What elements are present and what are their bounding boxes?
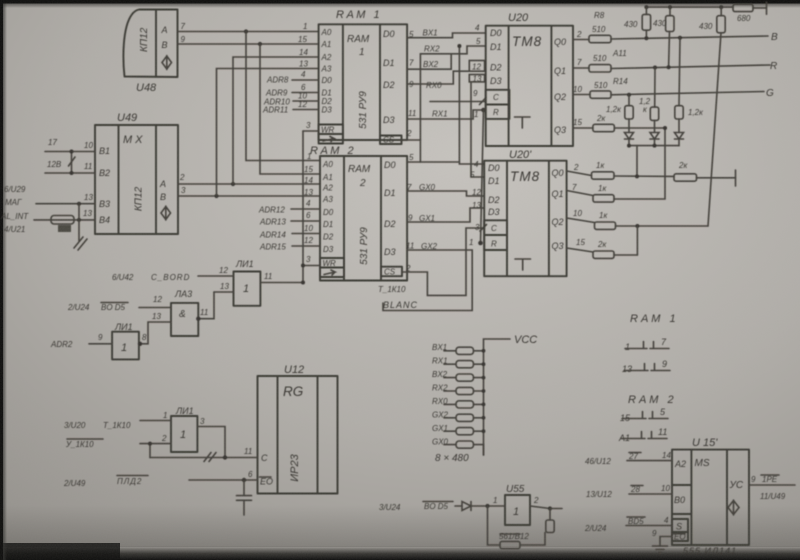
wire U49.A to RAM2.A2 bbox=[178, 183, 320, 185]
wire Q3' to Q2' row bbox=[636, 226, 638, 255]
VCC pull-up array 8x480 bbox=[435, 334, 537, 464]
node B bus junction bbox=[258, 42, 262, 46]
node A bus junction bbox=[244, 29, 248, 33]
resistor 430 #3 vertical bbox=[720, 7, 722, 16]
wire bus to U20'Q0 row bbox=[636, 146, 638, 177]
RAM1 U-block 531RU9 bbox=[298, 9, 407, 140]
diode #1 bbox=[625, 133, 634, 140]
wire G line bbox=[611, 92, 764, 95]
wire Q3 to U20' Q1 row bbox=[614, 128, 665, 199]
wire gate out to WR bus bbox=[260, 282, 303, 284]
D-register U20 TM8 bbox=[473, 12, 573, 146]
buffer U55 bbox=[505, 484, 530, 525]
wire RAM2.CS to T_1K10 bbox=[402, 228, 485, 295]
multiplexer U48 bbox=[123, 10, 185, 95]
wire RAM2 WR bbox=[303, 265, 320, 267]
WR sub-box RAM1 bbox=[319, 125, 343, 135]
multiplexer U49 bbox=[83, 112, 186, 234]
wire into U12.C bbox=[150, 457, 258, 459]
output YC bbox=[749, 484, 795, 486]
wire U48.A to RAM1.A0 bbox=[178, 31, 319, 33]
RAM2 U-block 531RU9 bbox=[304, 145, 407, 281]
wire RAM1 WR bbox=[303, 130, 319, 132]
EO to ground bbox=[660, 537, 672, 547]
wire from LI1 out up to LA3 in bbox=[140, 322, 171, 344]
pin jog box 13 bbox=[469, 75, 484, 82]
node R junction bbox=[481, 108, 486, 113]
wire C net down to U20'.D1 bbox=[471, 102, 484, 178]
wire A bus vertical to RAM2.A0 bbox=[246, 32, 320, 161]
resistor 430 #2 vertical bbox=[669, 7, 671, 16]
ground bbox=[653, 546, 668, 553]
resistor 680 horizontal top right bbox=[733, 4, 753, 11]
wire U49.B to RAM2.A3 bbox=[178, 195, 320, 197]
wire diode bus bbox=[629, 145, 679, 147]
resistor 430 #1 vertical bbox=[645, 7, 647, 14]
resistor 1,2k #2 hanging from R bbox=[653, 66, 657, 70]
WR sub-box RAM2 bbox=[320, 258, 344, 268]
wire A3 bus vertical to RAM1.A3 bbox=[217, 69, 319, 197]
wire gate out to C bbox=[197, 427, 225, 458]
ground slashes bbox=[74, 237, 87, 250]
wire A2 bus vertical to RAM1.A2 bbox=[233, 57, 319, 184]
wire U20.C input bbox=[430, 101, 485, 103]
wire rect13 to C line bbox=[470, 82, 472, 102]
wire R chain U20.R to U20'.R bbox=[481, 110, 484, 243]
wire D1net down to U20'.D0 bbox=[459, 46, 484, 164]
gate LI1 (ADR2) bbox=[112, 322, 139, 359]
wire CS stub bbox=[402, 139, 421, 141]
wire B bus vertical to RAM2.A1 bbox=[260, 44, 320, 174]
wire B line bbox=[611, 36, 768, 39]
diode #3 bbox=[675, 133, 684, 140]
wire to ground bbox=[78, 204, 80, 241]
gate LI1 (C_BORD) bbox=[234, 259, 261, 306]
selector U15' MS bbox=[672, 437, 749, 556]
CS sub-box RAM1 bbox=[380, 136, 402, 145]
wire stub 17 to B1 bbox=[45, 151, 95, 153]
diode at U55 input bbox=[455, 505, 462, 507]
wire LA3 out to LI1 pin13 bbox=[198, 292, 214, 319]
capacitor at EO bbox=[243, 480, 245, 495]
gate LI1 (T_1K10) bbox=[171, 406, 197, 452]
resistor on B4 wire bbox=[51, 216, 74, 225]
output wire bbox=[530, 506, 550, 509]
top VCC rail bbox=[646, 6, 733, 8]
resistor 1,2k #3 hanging from B bbox=[678, 36, 682, 40]
gate LA3 bbox=[171, 289, 198, 336]
resistor 2k on Q0' line bbox=[674, 174, 697, 181]
wire WR bus vertical bbox=[302, 131, 304, 283]
node A3 bus junction bbox=[214, 194, 218, 198]
vertical resistor at U55 out bbox=[549, 509, 551, 521]
register U12 IR23 bbox=[244, 364, 338, 494]
CS sub-box RAM2 bbox=[381, 267, 402, 277]
wire R line bbox=[611, 65, 770, 69]
D-register U20' TM8 bbox=[469, 149, 567, 276]
feedback resistor 561/B12 bbox=[488, 506, 501, 545]
wire RX2 down to RAM2.D0 row bbox=[419, 54, 421, 162]
pin jog box 12 bbox=[469, 61, 484, 72]
resistor 1,2k #1 hanging from G bbox=[627, 93, 631, 97]
wire stub 12B to B2 bbox=[45, 172, 95, 174]
wire U48.B to RAM1.A1 bbox=[178, 43, 319, 45]
node A2 bus junction bbox=[231, 182, 235, 186]
RAM jumper legend bbox=[618, 313, 679, 443]
wire tie B1-B2 bbox=[71, 152, 73, 174]
diode #2 bbox=[650, 133, 659, 140]
